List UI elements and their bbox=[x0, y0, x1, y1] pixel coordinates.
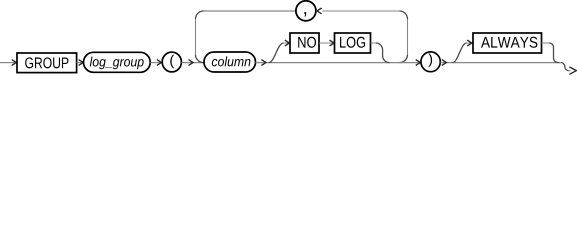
keyword box LOG bbox=[335, 33, 371, 53]
wire branch merge down after ALWAYS bbox=[542, 42, 550, 44]
keyword box GROUP bbox=[17, 53, 77, 73]
arrowhead exit bbox=[569, 67, 576, 74]
arrowhead into log_group bbox=[79, 60, 84, 66]
loop top left wire bbox=[204, 10, 296, 12]
punctuation oval ) bbox=[421, 52, 440, 72]
keyword box NO bbox=[290, 33, 319, 53]
wire branch merge down after LOG bbox=[371, 42, 376, 44]
arrowhead into LOG bbox=[330, 40, 335, 46]
arrowhead after ( bbox=[189, 60, 194, 66]
wire ( to column bbox=[181, 62, 203, 64]
repeat separator circle , bbox=[296, 1, 316, 21]
loop left descender curves bbox=[196, 11, 204, 63]
arrowhead into ) bbox=[416, 60, 421, 66]
wire log_group to ( bbox=[150, 62, 161, 64]
keyword box ALWAYS bbox=[473, 33, 542, 53]
wire ) to ALWAYS bypass bbox=[440, 62, 559, 64]
arrowhead into , (pointing left) bbox=[317, 8, 322, 14]
punctuation oval ( bbox=[162, 52, 181, 72]
wire NO to LOG bbox=[319, 42, 334, 44]
loop left vertical wire bbox=[195, 19, 197, 55]
loop top right wire bbox=[322, 11, 407, 55]
loop right corner curves bbox=[400, 11, 408, 63]
arrowhead into ALWAYS bbox=[467, 40, 472, 46]
arrowhead into GROUP bbox=[12, 60, 17, 66]
variable oval column bbox=[204, 52, 256, 72]
variable oval log_group bbox=[84, 52, 151, 72]
wire column to loop/branch (bypass under NO LOG) bbox=[256, 62, 421, 64]
wire entry line bbox=[0, 62, 16, 64]
wire branch split up to ALWAYS bbox=[453, 43, 467, 63]
arrowhead into NO bbox=[285, 40, 290, 46]
arrowhead after ) bbox=[442, 60, 447, 66]
wire exit drop and line bbox=[561, 63, 569, 71]
wire branch split up to NO bbox=[269, 43, 284, 63]
arrowhead after column bbox=[261, 60, 266, 66]
wire GROUP to log_group bbox=[77, 62, 83, 64]
arrowhead into ( bbox=[157, 60, 162, 66]
